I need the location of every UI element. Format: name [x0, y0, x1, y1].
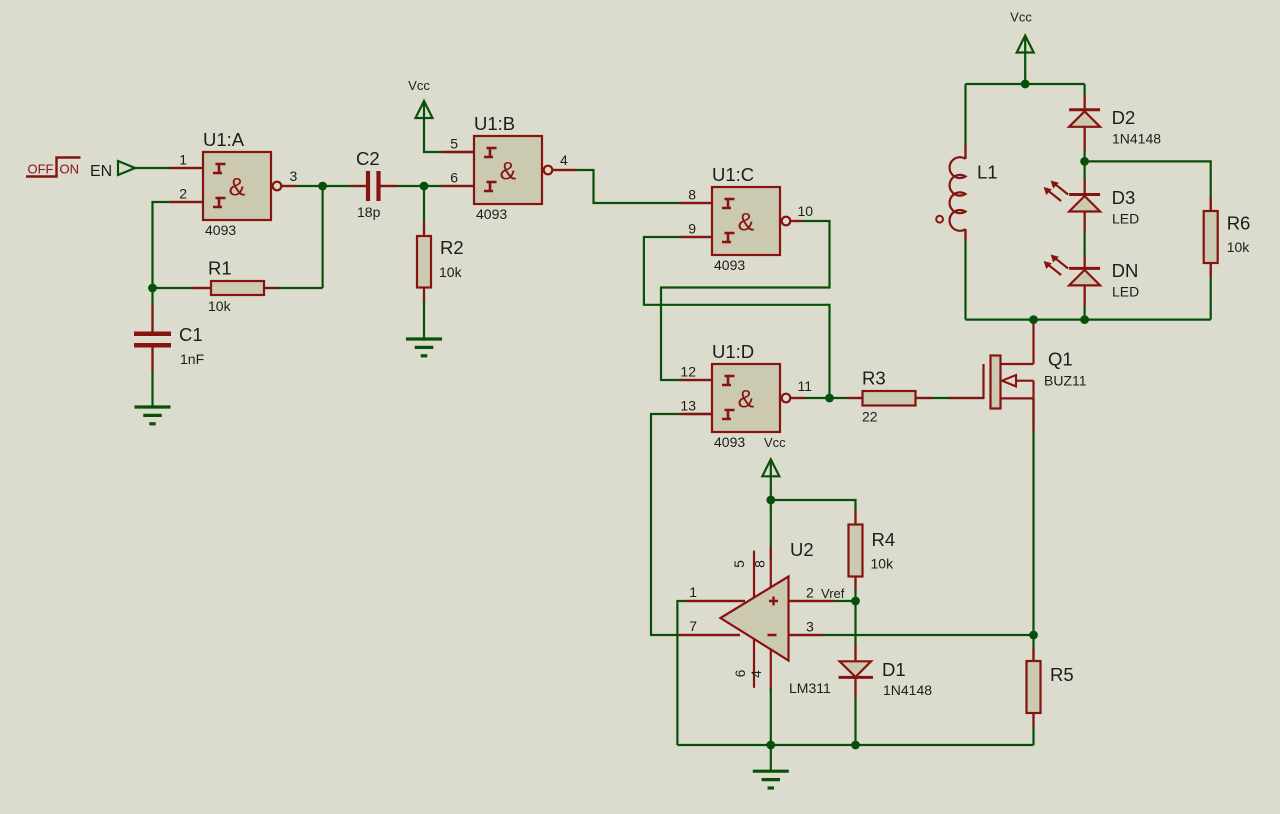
svg-text:BUZ11: BUZ11 — [1044, 373, 1087, 389]
svg-text:R1: R1 — [208, 258, 232, 279]
svg-text:&: & — [500, 158, 517, 186]
svg-text:&: & — [738, 209, 755, 237]
svg-text:Vcc: Vcc — [1010, 10, 1032, 25]
svg-text:R5: R5 — [1050, 664, 1074, 685]
svg-text:5: 5 — [731, 560, 747, 568]
svg-text:R4: R4 — [872, 529, 896, 550]
svg-text:LED: LED — [1112, 284, 1139, 300]
svg-text:Vcc: Vcc — [408, 78, 430, 93]
svg-text:4: 4 — [748, 670, 764, 678]
svg-text:LM311: LM311 — [789, 680, 831, 696]
svg-text:Vcc: Vcc — [764, 435, 786, 450]
svg-text:10k: 10k — [1227, 239, 1251, 255]
svg-text:L1: L1 — [977, 162, 998, 183]
svg-text:3: 3 — [290, 168, 298, 184]
svg-text:U1:D: U1:D — [712, 341, 754, 362]
svg-text:4093: 4093 — [714, 434, 745, 450]
svg-text:U1:B: U1:B — [474, 113, 515, 134]
svg-text:DN: DN — [1112, 260, 1139, 281]
svg-text:1N4148: 1N4148 — [883, 682, 932, 698]
svg-text:10: 10 — [798, 203, 814, 219]
svg-text:D1: D1 — [882, 659, 906, 680]
svg-text:1: 1 — [179, 152, 187, 168]
svg-text:D3: D3 — [1112, 187, 1136, 208]
svg-text:4: 4 — [560, 152, 568, 168]
svg-text:10k: 10k — [871, 556, 895, 572]
svg-text:U1:A: U1:A — [203, 129, 245, 150]
svg-text:EN: EN — [90, 163, 112, 180]
svg-text:7: 7 — [689, 618, 697, 634]
svg-text:18p: 18p — [357, 204, 381, 220]
svg-text:4093: 4093 — [205, 222, 236, 238]
svg-text:22: 22 — [862, 409, 878, 425]
svg-text:4093: 4093 — [714, 257, 745, 273]
svg-text:2: 2 — [806, 585, 814, 601]
svg-text:6: 6 — [450, 170, 458, 186]
svg-text:D2: D2 — [1112, 107, 1136, 128]
svg-text:9: 9 — [688, 221, 696, 237]
svg-text:Q1: Q1 — [1048, 349, 1073, 370]
svg-text:3: 3 — [806, 619, 814, 635]
svg-text:C2: C2 — [356, 148, 380, 169]
svg-text:Vref: Vref — [821, 586, 845, 601]
svg-text:U1:C: U1:C — [712, 164, 754, 185]
svg-text:2: 2 — [179, 186, 187, 202]
svg-text:8: 8 — [688, 187, 696, 203]
svg-text:R3: R3 — [862, 368, 886, 389]
svg-text:8: 8 — [752, 560, 768, 568]
svg-text:&: & — [229, 174, 246, 202]
svg-text:&: & — [738, 386, 755, 414]
svg-text:13: 13 — [680, 398, 696, 414]
svg-text:10k: 10k — [439, 264, 463, 280]
svg-text:10k: 10k — [208, 298, 232, 314]
svg-text:6: 6 — [732, 669, 748, 677]
svg-text:ON: ON — [60, 162, 80, 177]
svg-text:C1: C1 — [179, 324, 203, 345]
svg-text:11: 11 — [798, 378, 813, 394]
svg-text:R2: R2 — [440, 237, 464, 258]
svg-text:U2: U2 — [790, 539, 814, 560]
svg-text:12: 12 — [680, 364, 696, 380]
svg-text:OFF: OFF — [28, 162, 54, 177]
svg-text:1N4148: 1N4148 — [1112, 131, 1161, 147]
svg-text:R6: R6 — [1227, 213, 1251, 234]
svg-text:1nF: 1nF — [180, 351, 204, 367]
svg-text:5: 5 — [450, 136, 458, 152]
svg-text:1: 1 — [689, 584, 697, 600]
svg-text:4093: 4093 — [476, 206, 507, 222]
svg-text:LED: LED — [1112, 211, 1139, 227]
